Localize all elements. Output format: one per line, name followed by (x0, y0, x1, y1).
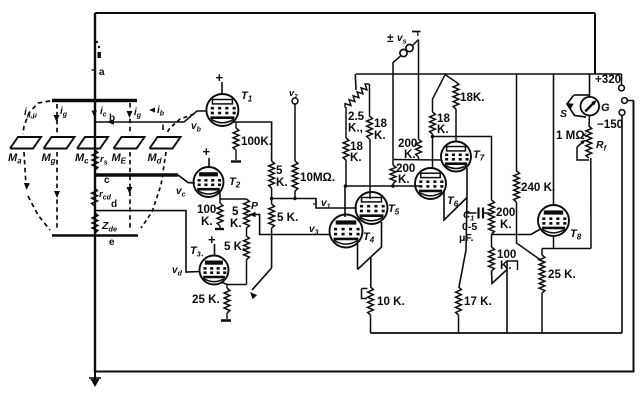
label vs (387, 31, 407, 46)
svg-text:×: × (582, 130, 587, 140)
svg-text:P: P (251, 200, 259, 212)
cathode flag T4 T5 (358, 222, 382, 287)
wire T8 cathode (542, 236, 591, 255)
svg-text:10MΩ.: 10MΩ. (300, 171, 335, 184)
svg-text:G: G (601, 102, 610, 114)
svg-text:+320: +320 (595, 73, 621, 86)
svg-text:1 MΩ: 1 MΩ (556, 129, 585, 142)
wire 18Ka top (369, 84, 371, 116)
wire vs left (393, 56, 401, 165)
tick i_b crossing (162, 125, 164, 131)
svg-text:d: d (111, 199, 117, 210)
terminal +320 (619, 74, 625, 91)
resistor 100K T1 (233, 122, 272, 160)
resistor 5K T3 (224, 228, 249, 285)
wire meter top (574, 74, 590, 97)
wire Rf down (590, 158, 592, 249)
wire b bus (52, 99, 137, 102)
label d (111, 199, 117, 210)
resistor 2.5K (345, 84, 369, 135)
svg-text:K.: K. (230, 217, 242, 230)
wiper arm T3 (250, 235, 272, 300)
label i_c (92, 106, 107, 119)
svg-text:μF.: μF. (459, 232, 474, 244)
label e (109, 237, 115, 248)
resistor 5K lower (269, 204, 299, 235)
wire -150 bus (371, 332, 623, 334)
label i_a (24, 107, 38, 120)
plug vs (400, 32, 421, 57)
op tube T1 plus (216, 70, 224, 94)
dashed current path i_g2 (127, 103, 133, 230)
deflection plate M_g (42, 137, 75, 166)
impedance Z_de (92, 213, 117, 234)
resistor 200K c (489, 200, 516, 234)
resistor 18K 2 (430, 75, 451, 168)
terminal -150 (619, 110, 625, 333)
tube T5 (356, 192, 400, 224)
label i_g 1 (60, 106, 68, 119)
label -150 (597, 118, 623, 131)
ground (89, 372, 101, 387)
capacitor C1 (459, 208, 490, 245)
potentiometer P (230, 199, 259, 230)
tube T3 plus (208, 232, 216, 256)
tube T8 plate wire (553, 74, 555, 206)
node T4 plate line (344, 184, 420, 217)
resistor 10M (292, 161, 335, 199)
deflection plate M_E (112, 137, 145, 166)
wire v2 down (294, 104, 296, 161)
resistor 200K upper (394, 137, 442, 161)
deflection plate M_d (148, 137, 181, 166)
resistor 100K T2 (197, 203, 223, 228)
wire e line (52, 234, 138, 237)
wire T1 cathode out (234, 122, 272, 161)
resistor r_s (92, 150, 108, 170)
wire T6 plate to 200K (431, 135, 492, 200)
tube T1 (206, 90, 252, 126)
svg-text:K.: K. (276, 176, 288, 189)
dashed current path i_a (23, 101, 50, 230)
svg-text:5 K.: 5 K. (224, 240, 245, 253)
svg-text:10 K.: 10 K. (377, 295, 405, 308)
minus bar T3 (221, 319, 231, 322)
minus bar T1 (231, 160, 241, 162)
resistor 25K T3 (192, 285, 230, 320)
svg-text:K.: K. (374, 129, 386, 142)
wire v_b grid line (96, 111, 207, 125)
resistor Rf 1M (556, 116, 608, 159)
svg-text:b: b (109, 113, 115, 124)
svg-text:e: e (109, 237, 115, 248)
resistor 240K (514, 74, 556, 261)
terminal out top (622, 98, 634, 104)
tube T8 (538, 205, 582, 242)
svg-text:K.: K. (437, 123, 449, 136)
tube T6 (415, 168, 459, 209)
svg-text:K.: K. (398, 173, 410, 186)
pot P wiper (249, 212, 331, 235)
wire vs right (418, 40, 420, 140)
resistor 100K T8 (489, 235, 517, 273)
svg-text:K.: K. (350, 151, 362, 164)
svg-text:c: c (104, 175, 110, 186)
node v1 line (270, 197, 357, 208)
node a (92, 41, 106, 78)
svg-text:100K.: 100K. (241, 135, 272, 148)
tube T7 (441, 142, 485, 172)
svg-text:+: + (203, 144, 211, 159)
svg-text:S: S (560, 108, 567, 120)
wire T3 cathode (221, 282, 247, 285)
wire top border (95, 12, 595, 14)
terminal v2 (289, 88, 298, 104)
label v_d (172, 265, 183, 278)
wire T2 cathode node (220, 190, 247, 203)
svg-text:K.: K. (500, 218, 512, 231)
svg-text:17 K.: 17 K. (464, 295, 492, 308)
svg-text:18K.: 18K. (460, 91, 485, 104)
label v_b (191, 121, 202, 134)
resistor 10K (362, 287, 405, 333)
wire left ground rail (94, 13, 96, 372)
dashed current path i_b (141, 114, 194, 228)
flag 100K (492, 261, 518, 333)
wire +320 rail (356, 73, 622, 75)
resistor 200K lower (390, 162, 415, 186)
switch S (560, 96, 586, 121)
resistor 17K (456, 287, 492, 333)
svg-text:K.,: K., (348, 122, 363, 135)
galvanometer G (581, 97, 611, 116)
tube T3 (190, 245, 229, 285)
deflection plate M_c (75, 137, 108, 166)
resistor 18K 1 (445, 75, 485, 142)
wire rail tap (354, 74, 357, 90)
label v3 (309, 224, 319, 237)
label v1 (313, 198, 331, 211)
resistor 25K T8 (539, 255, 576, 333)
wire T8 grid (492, 230, 540, 235)
label v_c (176, 186, 186, 199)
resistor r_cd (92, 188, 112, 206)
svg-text:−150: −150 (597, 118, 623, 131)
wire c bus (94, 175, 195, 183)
svg-text:K.: K. (404, 148, 416, 161)
label i_b (149, 105, 165, 118)
svg-text:5 K.: 5 K. (277, 211, 298, 224)
resistor 5K upper (269, 161, 288, 204)
resistor 18K a (367, 116, 388, 199)
cathode flag T6 T7 (444, 168, 467, 287)
wire bottom return (96, 101, 634, 372)
svg-text:K.: K. (201, 215, 213, 228)
wire box right edge (594, 13, 596, 74)
label +320 (595, 73, 621, 86)
svg-text:240 K.: 240 K. (521, 181, 555, 194)
tube T2 plus (203, 144, 211, 167)
svg-text:25 K.: 25 K. (192, 293, 220, 306)
label b (109, 113, 115, 124)
resistor 18K b (343, 107, 363, 186)
Rf arrow (577, 140, 589, 160)
label c (104, 175, 110, 186)
minus bar T2 (215, 226, 224, 229)
svg-text:a: a (99, 67, 105, 78)
tube T4 (330, 215, 375, 248)
deflection plate M_a (8, 137, 41, 166)
svg-text:±: ± (387, 31, 394, 45)
label i_g 2 (134, 107, 142, 120)
svg-text:25 K.: 25 K. (548, 268, 576, 281)
dashed current path i_g1 (54, 104, 61, 230)
tube T2 (194, 167, 241, 197)
wire d line (95, 211, 201, 272)
